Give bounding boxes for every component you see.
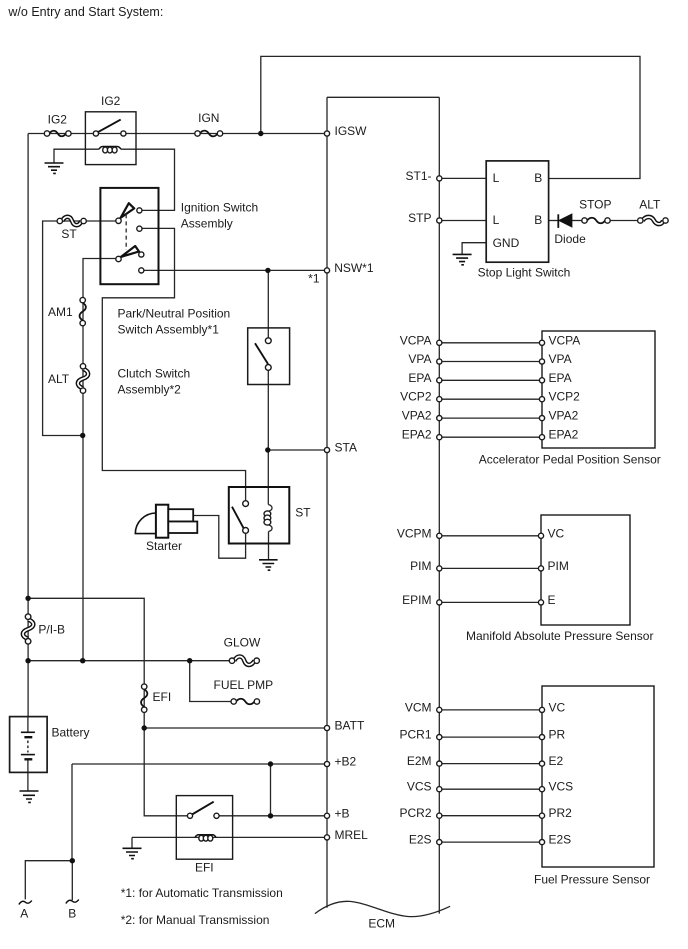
svg-text:PIM: PIM xyxy=(410,559,431,573)
svg-text:B: B xyxy=(534,213,542,227)
svg-text:BATT: BATT xyxy=(335,719,365,733)
svg-text:Park/Neutral Position: Park/Neutral Position xyxy=(118,307,231,321)
svg-text:EPA2: EPA2 xyxy=(549,428,579,442)
svg-text:GLOW: GLOW xyxy=(224,636,261,650)
svg-text:ST1-: ST1- xyxy=(405,169,431,183)
svg-text:ST: ST xyxy=(295,505,311,519)
svg-text:E2S: E2S xyxy=(409,833,432,847)
svg-text:*2: for Manual Transmission: *2: for Manual Transmission xyxy=(121,913,270,927)
svg-text:IG2: IG2 xyxy=(101,94,121,108)
svg-text:PR2: PR2 xyxy=(549,806,573,820)
svg-text:EPA: EPA xyxy=(408,371,431,385)
svg-text:VPA: VPA xyxy=(549,352,572,366)
svg-text:Diode: Diode xyxy=(554,232,586,246)
svg-text:GND: GND xyxy=(493,236,520,250)
svg-text:VCP2: VCP2 xyxy=(400,390,432,404)
svg-text:E2M: E2M xyxy=(407,754,432,768)
svg-text:STOP: STOP xyxy=(579,198,611,212)
svg-text:EPIM: EPIM xyxy=(402,593,431,607)
svg-text:PR: PR xyxy=(549,728,566,742)
svg-text:ST: ST xyxy=(61,227,77,241)
svg-text:MREL: MREL xyxy=(335,828,369,842)
svg-text:EPA: EPA xyxy=(549,371,572,385)
svg-text:VC: VC xyxy=(549,700,566,714)
svg-text:ALT: ALT xyxy=(48,372,70,386)
svg-text:VC: VC xyxy=(548,526,565,540)
svg-text:Starter: Starter xyxy=(146,539,182,553)
svg-text:VPA2: VPA2 xyxy=(549,409,579,423)
svg-text:FUEL PMP: FUEL PMP xyxy=(214,678,274,692)
svg-text:L: L xyxy=(493,171,500,185)
svg-text:E2: E2 xyxy=(549,754,564,768)
svg-text:Fuel Pressure Sensor: Fuel Pressure Sensor xyxy=(534,873,650,887)
svg-text:Assembly*2: Assembly*2 xyxy=(118,383,182,397)
svg-text:EPA2: EPA2 xyxy=(402,428,432,442)
svg-text:IG2: IG2 xyxy=(48,113,68,127)
svg-text:L: L xyxy=(493,213,500,227)
svg-text:VCPA: VCPA xyxy=(400,333,432,347)
svg-text:VCP2: VCP2 xyxy=(549,390,581,404)
svg-text:VPA2: VPA2 xyxy=(402,409,432,423)
svg-text:*1: *1 xyxy=(308,272,320,286)
svg-text:PCR2: PCR2 xyxy=(399,806,431,820)
svg-text:Accelerator Pedal Position Sen: Accelerator Pedal Position Sensor xyxy=(479,453,661,467)
svg-text:VCS: VCS xyxy=(407,780,432,794)
svg-text:STP: STP xyxy=(408,211,431,225)
svg-text:Switch Assembly*1: Switch Assembly*1 xyxy=(118,323,220,337)
svg-text:AM1: AM1 xyxy=(48,305,73,319)
svg-text:P/I-B: P/I-B xyxy=(38,622,65,636)
svg-text:Battery: Battery xyxy=(52,726,90,740)
svg-text:w/o Entry and Start System:: w/o Entry and Start System: xyxy=(7,5,163,19)
svg-text:Manifold Absolute Pressure Sen: Manifold Absolute Pressure Sensor xyxy=(466,629,653,643)
svg-text:Stop Light Switch: Stop Light Switch xyxy=(478,266,571,280)
svg-text:E2S: E2S xyxy=(549,833,572,847)
svg-text:VCPM: VCPM xyxy=(397,526,432,540)
svg-text:VPA: VPA xyxy=(408,352,431,366)
svg-text:Ignition Switch: Ignition Switch xyxy=(181,201,258,215)
svg-text:ECM: ECM xyxy=(368,917,395,931)
svg-text:Assembly: Assembly xyxy=(181,217,233,231)
svg-text:EFI: EFI xyxy=(153,690,172,704)
svg-text:STA: STA xyxy=(335,441,357,455)
svg-text:B: B xyxy=(68,907,76,921)
svg-text:*1: for Automatic Transmission: *1: for Automatic Transmission xyxy=(121,886,283,900)
svg-text:IGSW: IGSW xyxy=(335,124,368,138)
svg-text:PCR1: PCR1 xyxy=(399,728,431,742)
svg-text:NSW*1: NSW*1 xyxy=(334,261,374,275)
svg-text:VCM: VCM xyxy=(405,700,432,714)
svg-text:ALT: ALT xyxy=(639,198,661,212)
svg-text:E: E xyxy=(548,593,556,607)
svg-text:+B2: +B2 xyxy=(335,755,357,769)
svg-text:PIM: PIM xyxy=(548,559,569,573)
svg-text:Clutch Switch: Clutch Switch xyxy=(118,367,191,381)
svg-text:VCS: VCS xyxy=(549,780,574,794)
svg-text:A: A xyxy=(20,907,28,921)
svg-text:+B: +B xyxy=(335,806,350,820)
svg-text:B: B xyxy=(534,171,542,185)
svg-text:EFI: EFI xyxy=(195,861,214,875)
svg-text:VCPA: VCPA xyxy=(549,333,581,347)
svg-text:IGN: IGN xyxy=(198,111,219,125)
